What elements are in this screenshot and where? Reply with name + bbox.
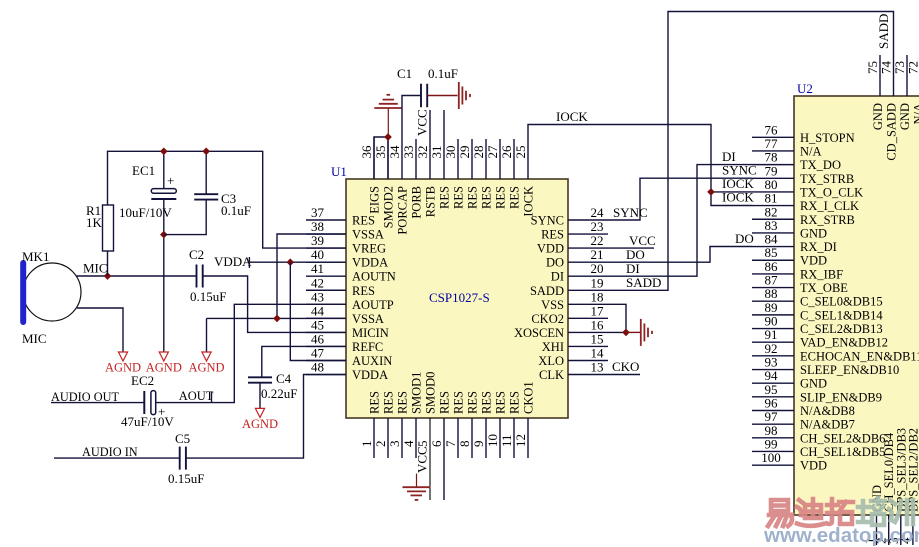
svg-text:www.edatop.com: www.edatop.com — [763, 524, 919, 547]
svg-text:6: 6 — [429, 440, 444, 447]
svg-text:H_STOPN: H_STOPN — [800, 131, 855, 145]
wire EC1 top to rail — [163, 151, 165, 188]
U1 pin 22 VDD — [537, 233, 604, 256]
U1 pin 15 XHI — [542, 331, 608, 354]
U1 pin 30 RES (top) — [443, 139, 466, 209]
svg-text:PORCAP: PORCAP — [396, 186, 410, 235]
U1 pin 29 RES (top) — [457, 139, 480, 209]
wire AUDIO OUT to EC2 — [51, 402, 144, 404]
svg-text:RES: RES — [352, 284, 375, 298]
net CKO stub pin 13 — [568, 374, 640, 376]
U2 pin 95 SLIP_EN&DB9 — [752, 382, 882, 405]
svg-text:RES: RES — [438, 186, 452, 209]
ground (top, U1 pins 35/36) — [374, 95, 402, 137]
svg-text:XHI: XHI — [542, 340, 564, 354]
svg-text:N/A: N/A — [912, 103, 919, 125]
capacitor C1 — [397, 66, 458, 107]
svg-text:7: 7 — [443, 440, 458, 447]
wire R1 top to supply rail — [108, 151, 347, 248]
U2 pin 96 N/A&DB8 — [752, 396, 855, 419]
U2 pin 93 SLEEP_EN&DB10 — [752, 355, 899, 378]
svg-text:AOUTP: AOUTP — [352, 298, 394, 312]
power label VCC on pin 5 — [415, 446, 430, 473]
U1 pin 45 MICIN — [306, 317, 389, 340]
svg-text:VREG: VREG — [352, 242, 386, 256]
svg-text:SMOD1: SMOD1 — [410, 372, 424, 414]
svg-text:MICIN: MICIN — [352, 326, 389, 340]
svg-text:TX_O_CLK: TX_O_CLK — [800, 185, 863, 199]
svg-text:VCC: VCC — [629, 233, 656, 248]
svg-text:IOCK: IOCK — [522, 186, 536, 217]
svg-text:RX_STRB: RX_STRB — [800, 213, 855, 227]
U1 pin 23 RES — [541, 219, 608, 242]
svg-text:GND: GND — [871, 103, 885, 130]
net label IOCK at U2 pin 80 — [722, 176, 754, 191]
ground AGND (C4) — [242, 408, 278, 431]
svg-text:AOUT: AOUT — [179, 389, 214, 403]
svg-text:RES: RES — [508, 186, 522, 209]
ground (below U1 pin 5) — [403, 474, 431, 500]
U2 pin 97 N/A&DB7 — [752, 409, 855, 432]
svg-text:36: 36 — [359, 145, 374, 159]
svg-text:38: 38 — [311, 219, 324, 234]
op-amp U1 codec chip body CSP1027-S — [346, 179, 568, 418]
svg-text:31: 31 — [429, 146, 444, 159]
svg-text:RES: RES — [438, 391, 452, 414]
U2 pin 83 GND — [752, 218, 827, 241]
svg-text:44: 44 — [311, 303, 325, 318]
capacitor C4 — [248, 371, 297, 401]
svg-text:RES: RES — [452, 391, 466, 414]
svg-text:RES: RES — [368, 391, 382, 414]
U1 pin 28 RES (top) — [471, 139, 494, 209]
U2 pin 3 BPS_SEL3/DB3 (bottom) — [886, 428, 909, 545]
ground AGND (EC1) — [146, 352, 182, 375]
U1 pin 25 IOCK (top) — [513, 146, 536, 217]
U2 pin 87 TX_OBE — [752, 273, 848, 296]
svg-text:GND: GND — [800, 226, 827, 240]
net label IOCK (top) — [556, 109, 588, 124]
svg-text:9: 9 — [471, 441, 486, 448]
svg-text:U2: U2 — [797, 81, 813, 96]
svg-text:RX_I_CLK: RX_I_CLK — [800, 199, 859, 213]
svg-text:42: 42 — [311, 275, 324, 290]
wire C4 bottom to AGND — [259, 383, 261, 409]
power label VCC on pin 32 — [415, 109, 430, 136]
wire C1 to ground — [427, 95, 457, 97]
ground AGND (VSSA) — [188, 352, 224, 375]
U1 pin 16 XOSCEN — [514, 317, 604, 340]
svg-text:VDDA: VDDA — [214, 254, 252, 269]
svg-text:72: 72 — [906, 61, 919, 74]
svg-text:40: 40 — [311, 247, 324, 262]
capacitor EC2 electrolytic — [121, 373, 174, 429]
svg-text:DO: DO — [735, 231, 754, 246]
svg-text:11: 11 — [499, 434, 514, 447]
svg-text:RES: RES — [480, 391, 494, 414]
svg-text:CH_SEL2&DB6: CH_SEL2&DB6 — [800, 431, 885, 445]
svg-text:16: 16 — [591, 317, 605, 332]
U1 pin 2 RES (bottom) — [373, 391, 396, 458]
svg-text:SADD: SADD — [530, 284, 564, 298]
U1 pin 40 VDDA — [306, 247, 388, 270]
microphone MK1 — [22, 249, 81, 346]
junction EC1/C3 bottom rail — [160, 231, 168, 239]
U1 pin 36 EIGS (top) — [359, 137, 382, 214]
junction rail/EC1 — [160, 147, 168, 155]
svg-text:IOCK: IOCK — [722, 190, 754, 205]
U1 pin 41 AOUTN — [306, 261, 396, 284]
svg-text:41: 41 — [311, 261, 324, 276]
svg-text:SLEEP_EN&DB10: SLEEP_EN&DB10 — [800, 363, 899, 377]
svg-text:0.1uF: 0.1uF — [428, 66, 458, 81]
wire AOUT to pin 43 AOUTP — [156, 304, 346, 402]
svg-text:30: 30 — [443, 146, 458, 159]
svg-text:SMOD2: SMOD2 — [382, 186, 396, 228]
U2 pin 91 VAD_EN&DB12 — [752, 327, 888, 350]
U2 pin 79 TX_STRB — [752, 163, 854, 186]
svg-text:AGND: AGND — [188, 361, 224, 375]
svg-text:VDDA: VDDA — [352, 368, 388, 382]
U1 pin 26 RES (top) — [499, 139, 522, 209]
svg-text:U1: U1 — [331, 164, 347, 179]
svg-text:RES: RES — [466, 391, 480, 414]
wire mic output to C2 — [77, 275, 197, 277]
U2 pin 78 TX_DO — [752, 150, 841, 173]
U2 pin 81 RX_I_CLK — [752, 191, 859, 214]
svg-text:15: 15 — [591, 331, 604, 346]
svg-text:MIC: MIC — [83, 261, 108, 276]
svg-text:20: 20 — [591, 261, 604, 276]
svg-text:AGND: AGND — [242, 417, 278, 431]
U2 pin 85 VDD — [752, 245, 827, 268]
svg-text:C5: C5 — [175, 431, 190, 446]
svg-text:VDD: VDD — [800, 459, 827, 473]
svg-text:N/A&DB8: N/A&DB8 — [800, 404, 855, 418]
svg-text:18: 18 — [591, 289, 604, 304]
svg-text:8: 8 — [457, 441, 472, 448]
svg-text:TX_STRB: TX_STRB — [800, 172, 854, 186]
svg-text:RX_DI: RX_DI — [800, 240, 837, 254]
U1 pin 31 RES (top) — [429, 110, 452, 209]
U1 pin 48 VDDA — [306, 360, 388, 383]
svg-text:GND: GND — [898, 103, 912, 130]
wire pin 16 XOSCEN to ground — [568, 331, 626, 333]
svg-text:2: 2 — [373, 441, 388, 448]
U2 pin 72 N/A (top) — [906, 55, 919, 125]
wire C3 bottom to EC1 bottom rail — [164, 200, 206, 235]
net label SYNC at U2 pin 79 — [722, 163, 757, 178]
svg-text:47: 47 — [311, 346, 325, 361]
ground AGND (mic) — [105, 352, 141, 375]
U1 pin 7 RES (bottom) — [443, 391, 466, 458]
svg-text:37: 37 — [311, 205, 325, 220]
svg-text:SADD: SADD — [876, 14, 891, 49]
U1 pin 32 RSTB (top) — [415, 110, 438, 217]
U2 pin 75 GND (top) — [865, 55, 885, 130]
svg-text:46: 46 — [311, 331, 325, 346]
svg-text:43: 43 — [311, 289, 324, 304]
wire EC1 bottom to AGND — [163, 199, 165, 352]
svg-text:C_SEL1&DB14: C_SEL1&DB14 — [800, 308, 883, 322]
net label AOUT — [179, 389, 214, 403]
svg-text:AUXIN: AUXIN — [352, 354, 392, 368]
U2 pin 2 CH_SEL0/DB4 (bottom) — [874, 432, 897, 545]
wire REFC pin 46 to C4 — [262, 346, 346, 377]
svg-text:0.1uF: 0.1uF — [221, 203, 251, 218]
svg-text:TX_DO: TX_DO — [800, 158, 841, 172]
svg-text:34: 34 — [387, 145, 402, 159]
U1 pin 6 RES (bottom) — [429, 391, 452, 500]
svg-text:21: 21 — [591, 247, 604, 262]
U1 pin 33 PORB (top) — [401, 139, 424, 219]
svg-text:10: 10 — [485, 434, 500, 447]
net label AUDIO OUT — [51, 390, 119, 404]
U1 pin 4 SMOD1 (bottom) — [401, 372, 424, 458]
svg-text:48: 48 — [311, 360, 324, 375]
junction rail/C3 — [202, 147, 210, 155]
capacitor C2 — [189, 247, 226, 304]
U1 pin 1 RES (bottom) — [359, 391, 382, 458]
ground (U1 pin 16) — [641, 319, 652, 346]
U2 pin 74 CD_SADD (top) — [879, 61, 899, 161]
svg-text:N/A&DB7: N/A&DB7 — [800, 418, 855, 432]
wire R1 bottom to mic node — [107, 251, 109, 276]
U1 pin 10 RES (bottom) — [485, 391, 508, 458]
U1 pin 18 VSS — [541, 289, 603, 312]
svg-text:GND: GND — [800, 377, 827, 391]
svg-text:EIGS: EIGS — [368, 186, 382, 214]
U2 pin 99 CH_SEL1&DB5 — [752, 436, 885, 459]
svg-text:RES: RES — [466, 186, 480, 209]
svg-text:24: 24 — [591, 205, 605, 220]
svg-text:SYNC: SYNC — [613, 205, 648, 220]
U1 pin 13 CLK — [539, 360, 604, 383]
svg-text:22: 22 — [591, 233, 604, 248]
svg-text:29: 29 — [457, 146, 472, 159]
wire to xtal ground — [626, 331, 640, 333]
U1 pin 17 CKO2 — [531, 303, 608, 326]
U1 pin 42 RES — [306, 275, 375, 298]
svg-text:RES: RES — [396, 391, 410, 414]
svg-text:0.15uF: 0.15uF — [168, 471, 204, 486]
svg-text:DI: DI — [722, 149, 736, 164]
U1 pin 34 PORCAP (top) — [387, 145, 410, 235]
svg-text:CD_SADD: CD_SADD — [885, 103, 899, 161]
svg-text:REFC: REFC — [352, 340, 383, 354]
svg-text:25: 25 — [513, 146, 528, 159]
junction VDDA branch — [286, 258, 294, 266]
U2 pin 80 TX_O_CLK — [752, 177, 863, 200]
svg-text:VSSA: VSSA — [352, 228, 384, 242]
svg-text:C1: C1 — [397, 66, 412, 81]
svg-text:CKO: CKO — [612, 359, 639, 374]
U2 pin 88 C_SEL0&DB15 — [752, 286, 883, 309]
U1 pin 8 RES (bottom) — [457, 391, 480, 458]
U1 pin 9 RES (bottom) — [471, 391, 494, 458]
svg-text:CH_SEL1&DB5: CH_SEL1&DB5 — [800, 445, 885, 459]
svg-text:0.15uF: 0.15uF — [190, 289, 226, 304]
U1 pin 3 RES (bottom) — [387, 391, 410, 458]
svg-text:+: + — [167, 173, 174, 188]
U1 pin 21 DO — [546, 247, 604, 270]
U2 pin 98 CH_SEL2&DB6 — [752, 423, 885, 446]
net label SADD at U2 pin 74 — [876, 14, 891, 49]
watermark url www.edatop.com — [763, 524, 919, 547]
svg-text:EC2: EC2 — [131, 373, 154, 388]
svg-text:13: 13 — [591, 360, 604, 375]
svg-text:VSS: VSS — [541, 298, 564, 312]
wire AUDIO IN to C5 — [54, 457, 180, 459]
svg-text:CSP1027-S: CSP1027-S — [429, 290, 490, 305]
U2 pin 100 VDD — [752, 450, 827, 473]
svg-text:RES: RES — [541, 228, 564, 242]
net label CKO — [612, 359, 639, 374]
U2 pin 76 H_STOPN — [752, 122, 855, 145]
svg-text:DI: DI — [551, 270, 564, 284]
svg-text:VDD: VDD — [800, 254, 827, 268]
svg-text:27: 27 — [485, 145, 500, 159]
svg-text:4: 4 — [401, 440, 416, 447]
svg-text:1: 1 — [359, 441, 374, 448]
wire C3 top to rail — [205, 151, 207, 194]
svg-text:VDDA: VDDA — [352, 256, 388, 270]
U1 pin 11 RES (bottom) — [499, 391, 522, 458]
svg-text:3: 3 — [387, 441, 402, 448]
svg-text:28: 28 — [471, 146, 486, 159]
resistor R1 — [86, 203, 114, 251]
svg-text:EC1: EC1 — [132, 163, 155, 178]
junction VSSA — [273, 315, 281, 323]
U1 pin 37 RES — [306, 205, 375, 228]
svg-text:45: 45 — [311, 317, 324, 332]
net VCC stub pin 22 — [568, 247, 654, 249]
net label DI at U2 pin 78 — [722, 149, 736, 164]
svg-text:RES: RES — [452, 186, 466, 209]
net label DO at U2 pin 84 — [735, 231, 754, 246]
watermark logo text — [768, 499, 853, 526]
wire VSSA pin 38 to pin 44 and AGND — [207, 234, 347, 318]
svg-text:35: 35 — [373, 146, 388, 159]
svg-text:100: 100 — [761, 450, 781, 465]
svg-text:23: 23 — [591, 219, 604, 234]
svg-text:XOSCEN: XOSCEN — [514, 326, 564, 340]
wire pin 5 down — [429, 418, 431, 500]
svg-text:XLO: XLO — [538, 354, 564, 368]
net label VDDA — [214, 254, 252, 269]
U1 pin 46 REFC — [306, 331, 383, 354]
svg-text:TX_OBE: TX_OBE — [800, 281, 848, 295]
svg-text:VCC: VCC — [415, 109, 430, 136]
svg-text:RES: RES — [352, 214, 375, 228]
wire pins 35/36 to signal ground — [374, 137, 388, 179]
svg-text:RES: RES — [480, 186, 494, 209]
U2 pin 82 RX_STRB — [752, 204, 855, 227]
svg-text:VCC: VCC — [415, 446, 430, 473]
svg-text:AOUTN: AOUTN — [352, 270, 396, 284]
net label IOCK at U2 pin 81 — [722, 190, 754, 205]
U1 pin 44 VSSA — [306, 303, 384, 326]
capacitor C3 — [194, 191, 251, 218]
svg-text:SYNC: SYNC — [531, 214, 564, 228]
net DO wire pin 21 to U2 pin 84 — [568, 247, 752, 263]
U2 pin 73 GND (top) — [892, 55, 912, 130]
U2 pin 90 C_SEL2&DB13 — [752, 314, 883, 337]
U2 pin 4 BPS_SEL2/DB2 (bottom) — [898, 428, 919, 545]
U2 pin 94 GND — [752, 368, 827, 391]
wire C2 to MICIN pin 45 — [203, 276, 346, 332]
svg-text:RES: RES — [382, 391, 396, 414]
svg-text:19: 19 — [591, 275, 604, 290]
net label SYNC at U1 — [613, 205, 648, 220]
wire VDDA down to pin 47 — [290, 262, 346, 360]
svg-text:MK1: MK1 — [22, 249, 49, 264]
junction pins 16/18 ground — [622, 329, 630, 337]
U1 pin 38 VSSA — [306, 219, 384, 242]
U2 pin 1 GND (bottom) — [862, 485, 885, 545]
net SYNC wire pin 24 to U2 pin 79 — [568, 178, 752, 220]
junction pins 35/36 ground — [384, 133, 392, 141]
net label DO at U1 — [626, 247, 645, 262]
U1 pin 39 VREG — [306, 233, 386, 256]
U1 pin 20 DI — [551, 261, 604, 284]
svg-text:CKO1: CKO1 — [522, 381, 536, 414]
net label SADD at U1 — [626, 275, 661, 290]
svg-text:MIC: MIC — [22, 331, 47, 346]
svg-text:CLK: CLK — [539, 368, 564, 382]
svg-text:1K: 1K — [86, 215, 103, 230]
svg-text:32: 32 — [415, 146, 430, 159]
wire VDDA to pin 40 — [249, 261, 346, 263]
wire pin 34 to C1 — [402, 96, 421, 180]
U2 pin 86 RX_IBF — [752, 259, 843, 282]
svg-text:RX_IBF: RX_IBF — [800, 267, 843, 281]
capacitor EC1 electrolytic — [119, 163, 176, 220]
svg-text:SMOD0: SMOD0 — [424, 372, 438, 414]
U1 pin 5 SMOD0 (bottom) — [415, 372, 438, 447]
svg-text:RES: RES — [494, 391, 508, 414]
svg-text:C_SEL0&DB15: C_SEL0&DB15 — [800, 295, 883, 309]
junction mic/R1 — [104, 272, 112, 280]
U1 pin 43 AOUTP — [306, 289, 394, 312]
svg-text:12: 12 — [513, 434, 528, 447]
svg-text:CKO2: CKO2 — [531, 312, 564, 326]
net IOCK wire pin25 to U2 pins 80/81 — [528, 125, 752, 192]
net label VCC — [629, 233, 656, 248]
svg-text:RES: RES — [494, 186, 508, 209]
svg-text:AUDIO IN: AUDIO IN — [82, 445, 138, 459]
svg-text:VAD_EN&DB12: VAD_EN&DB12 — [800, 336, 888, 350]
U2 pin 77 N/A — [752, 136, 822, 159]
wire C5 to pin 48 — [186, 375, 346, 459]
U2 pin 92 ECHOCAN_EN&DB11 — [752, 341, 919, 364]
svg-text:DO: DO — [546, 256, 564, 270]
svg-text:14: 14 — [591, 346, 605, 361]
U1 pin 27 RES (top) — [485, 139, 508, 209]
U1 pin 24 SYNC — [531, 205, 604, 228]
U1 part name CSP1027-S — [429, 290, 490, 305]
svg-text:17: 17 — [591, 303, 605, 318]
U1 pin 14 XLO — [538, 346, 608, 369]
svg-text:C2: C2 — [189, 247, 204, 262]
wire VSSA to AGND — [206, 318, 208, 352]
svg-text:DI: DI — [626, 261, 640, 276]
svg-text:PORB: PORB — [410, 186, 424, 219]
svg-text:RSTB: RSTB — [424, 186, 438, 217]
U1 pin 12 CKO1 (bottom) — [513, 381, 536, 458]
U1 reference designator — [331, 164, 347, 179]
svg-text:C_SEL2&DB13: C_SEL2&DB13 — [800, 322, 883, 336]
